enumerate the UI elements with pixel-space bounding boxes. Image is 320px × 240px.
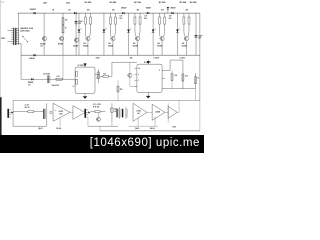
wire Q9 emitter down xyxy=(130,77,137,86)
transistor Q10 xyxy=(97,117,101,121)
wire A3 to A4 xyxy=(147,111,152,113)
svg-text:IC-555: IC-555 xyxy=(78,65,85,67)
wire stage A column xyxy=(43,13,45,55)
IC U1 body xyxy=(75,67,95,93)
wire LED column group 3 xyxy=(128,13,130,55)
supply arrow U2 xyxy=(147,61,150,64)
opamp A2 body xyxy=(73,106,85,120)
arrow MIC1 xyxy=(11,111,13,113)
diode D1 on top rail xyxy=(34,12,36,14)
wire resistor column left group 3 xyxy=(134,13,136,17)
wire Ra to base group 5 xyxy=(183,24,185,36)
wire top supply rail xyxy=(18,12,200,14)
wire riser x574 xyxy=(111,62,113,76)
wire MIC2 drop xyxy=(87,118,89,126)
wire chain1 bottom xyxy=(13,125,47,127)
wire resistor column left group 4 xyxy=(159,13,161,17)
wire Rb to base group 5 xyxy=(187,24,190,36)
wire transformer secondary bottom to bottom rail xyxy=(19,44,21,56)
wire Q4 emitter drop xyxy=(87,41,89,55)
wire mains lead lower xyxy=(7,40,11,42)
resistor Ra group 3 xyxy=(134,17,136,24)
diode D4 on rail xyxy=(122,12,124,14)
wire U2 out to riser xyxy=(165,69,170,71)
resistor Rb group 3 xyxy=(139,17,141,24)
pin U2 right 2 xyxy=(162,77,165,79)
wire middle bottom xyxy=(162,88,195,90)
wire preamp supply line xyxy=(13,99,200,101)
wire Rb to base group 4 xyxy=(163,24,166,36)
component box chain2 xyxy=(111,108,113,112)
pin U1 left mid xyxy=(72,85,75,87)
opamp A1 body xyxy=(53,103,70,121)
wire A1 to A2 xyxy=(70,111,73,113)
capacitor C5 on trigger line xyxy=(47,75,50,83)
wire R15 column xyxy=(182,60,184,89)
resistor Ra group 5 xyxy=(183,17,185,24)
wire R18 on xyxy=(100,111,105,113)
svg-text:C-1815: C-1815 xyxy=(179,57,185,59)
wire Ra to base group 1 xyxy=(84,24,86,36)
LED D11 xyxy=(78,30,81,33)
supply arrow U1 xyxy=(83,63,86,66)
diode D2 on bottom rail xyxy=(34,54,36,56)
resistor R19 xyxy=(117,86,119,92)
ground U2 xyxy=(146,96,151,99)
resistor R14 xyxy=(171,74,173,81)
resistor Ra group 1 xyxy=(84,17,86,24)
diode D3 on rail xyxy=(74,12,76,14)
wire LED column group 4 xyxy=(152,13,154,55)
LED D14 xyxy=(152,30,155,33)
wire A4 bottom drop xyxy=(154,117,156,127)
opamp A3 body xyxy=(133,103,147,121)
left border line of photo xyxy=(0,0,1,135)
wire Q9 collector up xyxy=(129,62,131,73)
wire resistor column left group 1 xyxy=(84,13,86,17)
wire ground return right drop xyxy=(199,100,201,131)
wire resistor column right group 1 xyxy=(89,13,91,17)
wire A4 to A5 xyxy=(165,111,168,113)
resistor Ra group 2 xyxy=(109,17,111,24)
potentiometer VR1 xyxy=(97,69,99,83)
LED D12 xyxy=(103,30,106,33)
wire ground return left drop xyxy=(99,126,101,131)
pin U1 bottom xyxy=(84,93,86,96)
transistor Q9 xyxy=(128,73,132,77)
dark left-edge strip (photo border bottom) xyxy=(0,97,2,135)
capacitor C6 xyxy=(43,109,44,119)
pin U1 top supply xyxy=(84,63,86,67)
wire left drop to trigger line xyxy=(20,55,22,79)
svg-text:QL61: QL61 xyxy=(38,128,42,130)
resistor R13 xyxy=(103,75,108,77)
opamp A5 body xyxy=(168,106,177,118)
diode D7 xyxy=(31,78,33,80)
zener D6 xyxy=(167,7,169,9)
pin U2 left 1 xyxy=(135,67,137,69)
resistor inside U1 upper xyxy=(76,72,78,77)
resistor R18 xyxy=(95,111,100,113)
pin U2 bottom xyxy=(147,92,149,96)
pin U2 right 1 xyxy=(162,69,165,71)
wire Q5 emitter drop xyxy=(112,41,114,55)
pin U2 left 3 xyxy=(135,79,137,81)
wire Rb to base group 2 xyxy=(114,24,117,36)
wire divider column x605 xyxy=(117,80,119,100)
wire Q7 emitter drop xyxy=(161,41,163,55)
wire Q8 emitter drop xyxy=(185,41,187,55)
transistor Q7 xyxy=(160,36,164,40)
pin U2 left 2 xyxy=(135,73,137,75)
wire MIC1 to R17 xyxy=(13,111,28,113)
wire VR1 to R13 xyxy=(99,75,103,77)
arrow MIC2 xyxy=(88,111,90,113)
wire chain1 right xyxy=(46,103,48,126)
transistor Q2 xyxy=(59,36,63,40)
wire Rb to base group 3 xyxy=(138,24,141,36)
wire cap column right xyxy=(195,13,197,55)
wire R13 to riser xyxy=(108,75,112,77)
wire R16 column xyxy=(194,73,196,88)
svg-text:QL61: QL61 xyxy=(135,128,139,130)
wire resistor column right group 4 xyxy=(164,13,166,17)
capacitor bank chain2 xyxy=(116,109,117,118)
wire LED column group 1 xyxy=(78,13,80,55)
wire A3 bottom drop xyxy=(137,118,139,127)
resistor Rb group 1 xyxy=(90,17,92,24)
resistor R12 xyxy=(56,78,62,80)
wire riser drop xyxy=(111,122,113,126)
transistor Q1 xyxy=(42,36,46,40)
wire R17 to C6 xyxy=(34,111,44,113)
svg-text:10k: 10k xyxy=(130,57,133,59)
svg-text:220V 50Hz: 220V 50Hz xyxy=(20,30,30,32)
wire stage B column xyxy=(62,13,64,55)
LED D13 xyxy=(127,30,130,33)
transistor Q6 xyxy=(135,36,139,40)
wire A5 output up xyxy=(177,100,179,112)
resistor Ra group 4 xyxy=(159,17,161,24)
wire A5 flat edge riser xyxy=(167,103,169,122)
wire resistor column left group 5 xyxy=(183,13,185,17)
transistor Q8 xyxy=(184,36,188,40)
wire resistor column left group 2 xyxy=(109,13,111,17)
wire chain2 bottom xyxy=(88,125,118,127)
resistor Rb group 5 xyxy=(188,17,190,24)
wire Ra to base group 4 xyxy=(159,24,161,36)
wire right edge middle xyxy=(199,56,201,101)
wire mains lead upper xyxy=(7,30,11,32)
node input A1 xyxy=(50,111,52,113)
microphone MIC1 xyxy=(7,109,9,118)
wire chain2 riser xyxy=(111,103,113,122)
transformer T1 xyxy=(15,28,16,45)
capacitor C2 electrolytic xyxy=(75,21,78,22)
wire MIC2 to R18 xyxy=(90,111,95,113)
transistor Q5 xyxy=(111,36,115,40)
wire Ra to base group 3 xyxy=(134,24,136,36)
resistor R3 xyxy=(62,26,64,33)
LED D15 xyxy=(176,30,179,33)
wire Rb to base group 1 xyxy=(89,24,92,36)
wire LED column group 2 xyxy=(103,13,105,55)
wire LED column group 5 xyxy=(176,13,178,55)
IC U2 body xyxy=(137,64,162,92)
resistor inside U1 lower xyxy=(76,79,78,84)
pin U2 left 4 xyxy=(135,85,137,87)
wire stage C column xyxy=(75,13,77,55)
switch S1 on secondary xyxy=(23,37,27,42)
wire chain2 bottom right xyxy=(129,125,158,127)
resistor R17 xyxy=(28,111,34,113)
ground U1 xyxy=(83,96,88,99)
wire A1 bottom drop xyxy=(59,118,61,127)
resistor Rb group 4 xyxy=(164,17,166,24)
wire resistor column right group 5 xyxy=(188,13,190,17)
capacitor C3 electrolytic xyxy=(195,35,198,36)
svg-text:LED: LED xyxy=(66,3,70,5)
resistor R2 xyxy=(62,18,64,25)
svg-text:100k: 100k xyxy=(96,57,100,59)
wire trigger line xyxy=(21,78,75,80)
pin U1 right upper xyxy=(95,73,99,75)
wire top link to U2 xyxy=(112,61,137,63)
wire resistor column right group 2 xyxy=(114,13,116,17)
wire Ra to base group 2 xyxy=(109,24,111,36)
opamp A4 body xyxy=(152,104,165,120)
wire Q6 emitter drop xyxy=(136,41,138,55)
wire right edge drop xyxy=(199,13,201,56)
wire bottom rail of top section xyxy=(21,54,200,56)
svg-text:LED: LED xyxy=(43,3,47,5)
diode D6 on rail xyxy=(171,12,173,14)
wire riser x872 xyxy=(169,60,171,70)
black caption bar xyxy=(0,135,204,153)
wire Q10 up xyxy=(97,113,99,118)
wire transformer secondary top to rail xyxy=(18,13,20,28)
resistor Rb group 2 xyxy=(114,17,116,24)
svg-text:C-1815: C-1815 xyxy=(153,57,159,59)
wire long ground return xyxy=(100,130,200,132)
transistor Q4 xyxy=(86,36,90,40)
diode D5 on rail xyxy=(147,12,149,14)
resistor R16 xyxy=(194,77,196,84)
wire R14 column xyxy=(171,70,173,88)
wire top link right xyxy=(170,59,183,61)
wire chain1 left xyxy=(12,100,14,126)
transistor Q3 xyxy=(74,38,78,42)
wire resistor column right group 3 xyxy=(139,13,141,17)
wire middle bottom drop xyxy=(194,89,196,101)
wire feedback drop xyxy=(62,56,64,79)
microphone MIC2 xyxy=(84,109,86,118)
resistor R15 xyxy=(182,74,184,81)
